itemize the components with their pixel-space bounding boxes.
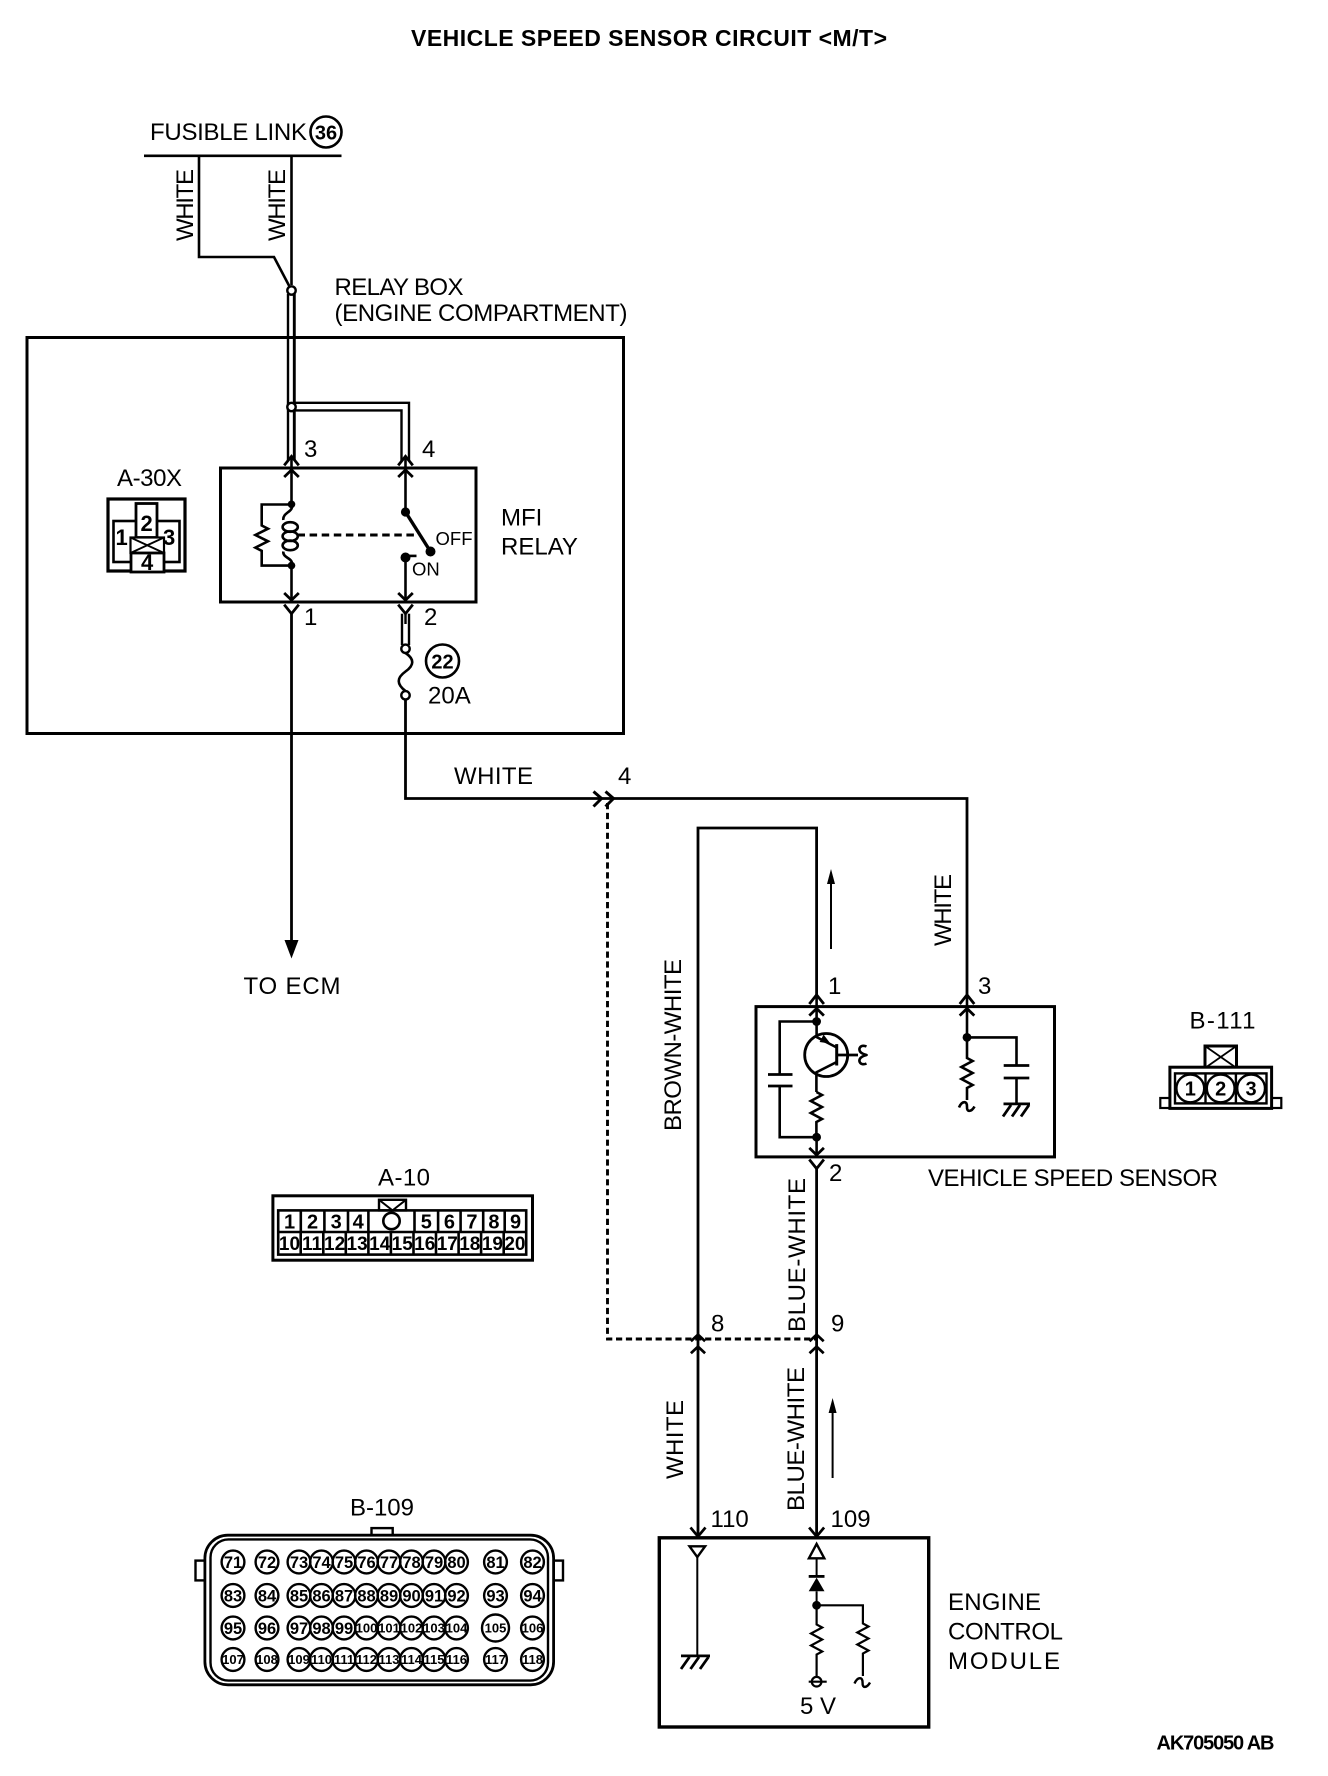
relay coil	[283, 501, 298, 570]
label WHITE (VSS pin 3 wire)	[930, 874, 957, 946]
junction 9 chevrons	[810, 1335, 824, 1354]
ECM output terminal triangle (pin 109)	[809, 1544, 824, 1577]
svg-text:102: 102	[401, 1621, 423, 1636]
label TO ECM	[244, 973, 341, 1000]
VSS pin 1 arrow	[809, 995, 824, 1021]
junction ring at fusible wires join	[287, 286, 295, 294]
label 9	[831, 1311, 844, 1338]
wire WHITE from junction 8 to ECM pin 110	[697, 1335, 700, 1536]
fusible link number 36	[311, 117, 342, 148]
svg-text:BROWN-WHITE: BROWN-WHITE	[660, 959, 687, 1131]
relay pin 4 arrow	[398, 456, 413, 512]
wire WHITE left from fusible link	[199, 156, 290, 287]
ECM pin 109 arrow	[809, 1528, 824, 1537]
svg-text:74: 74	[312, 1554, 331, 1572]
connector A-10 drawing	[273, 1196, 533, 1260]
svg-text:107: 107	[222, 1652, 244, 1667]
svg-text:4: 4	[618, 763, 631, 790]
svg-text:AK705050 AB: AK705050 AB	[1157, 1733, 1275, 1755]
relay switch	[401, 507, 436, 600]
svg-text:104: 104	[446, 1621, 468, 1636]
junction node (ECM)	[812, 1601, 821, 1610]
svg-text:93: 93	[486, 1588, 504, 1606]
pin number 109	[831, 1506, 871, 1533]
inline connector chevrons on WHITE wire	[594, 792, 614, 807]
engine control module outline	[659, 1538, 928, 1727]
ground (ECM internal)	[681, 1656, 710, 1669]
svg-text:4: 4	[141, 550, 154, 575]
svg-text:WHITE: WHITE	[930, 874, 957, 946]
resistor R3 (to 5V)	[811, 1605, 822, 1677]
title: VEHICLE SPEED SENSOR CIRCUIT <M/T>	[411, 25, 887, 51]
svg-text:B-111: B-111	[1190, 1008, 1256, 1035]
svg-text:112: 112	[356, 1652, 377, 1667]
svg-text:20A: 20A	[428, 683, 471, 710]
svg-text:86: 86	[312, 1588, 330, 1606]
svg-text:B-109: B-109	[350, 1495, 414, 1522]
label ENGINE CONTROL MODULE	[948, 1589, 1063, 1675]
svg-text:19: 19	[482, 1234, 503, 1255]
ECM pin 110 arrow	[691, 1528, 706, 1537]
svg-text:11: 11	[302, 1234, 323, 1255]
MFI relay outline	[221, 468, 477, 602]
svg-text:87: 87	[335, 1588, 353, 1606]
label VEHICLE SPEED SENSOR	[928, 1165, 1218, 1192]
svg-text:2: 2	[829, 1160, 842, 1187]
svg-text:OFF: OFF	[436, 528, 473, 549]
svg-text:1: 1	[1185, 1079, 1196, 1101]
svg-text:17: 17	[437, 1234, 458, 1255]
svg-text:79: 79	[425, 1554, 443, 1572]
svg-text:A-10: A-10	[378, 1165, 430, 1192]
svg-text:WHITE: WHITE	[172, 169, 199, 241]
svg-text:1: 1	[284, 1212, 295, 1234]
vehicle speed sensor outline	[756, 1007, 1055, 1157]
svg-text:2: 2	[1215, 1079, 1226, 1101]
svg-text:TO ECM: TO ECM	[244, 973, 341, 1000]
svg-text:2: 2	[141, 511, 153, 536]
ground (VSS internal)	[1003, 1104, 1030, 1117]
resistor R1 (below transistor)	[811, 1092, 822, 1142]
relay box label	[335, 274, 628, 327]
svg-text:97: 97	[290, 1620, 308, 1638]
pin number 3	[304, 436, 317, 463]
svg-text:116: 116	[446, 1652, 467, 1667]
svg-text:88: 88	[357, 1588, 375, 1606]
svg-text:WHITE: WHITE	[662, 1400, 689, 1479]
label WHITE (right fusible wire)	[264, 169, 291, 241]
svg-text:2: 2	[424, 604, 437, 631]
relay box (engine compartment) outline	[27, 338, 624, 734]
svg-text:36: 36	[315, 123, 337, 145]
svg-text:13: 13	[347, 1234, 368, 1255]
svg-text:109: 109	[831, 1506, 871, 1533]
svg-text:10: 10	[279, 1234, 300, 1255]
wire BLUE-WHITE from VSS pin 2 to ECM pin 109	[815, 1169, 818, 1536]
svg-text:108: 108	[256, 1652, 278, 1667]
label BLUE-WHITE (above junction 9)	[784, 1178, 811, 1332]
svg-text:78: 78	[402, 1554, 420, 1572]
svg-text:VEHICLE SPEED SENSOR: VEHICLE SPEED SENSOR	[928, 1165, 1218, 1192]
label WHITE (left fusible wire)	[172, 169, 199, 241]
capacitor C1 (VSS left)	[768, 1022, 817, 1138]
capacitor C2 (VSS right)	[967, 1037, 1029, 1104]
svg-text:113: 113	[379, 1652, 400, 1667]
connector B-109 drawing	[196, 1528, 564, 1685]
svg-text:118: 118	[522, 1652, 543, 1667]
resistor R2 (VSS pin 3 branch)	[959, 1033, 975, 1111]
svg-text:98: 98	[312, 1620, 330, 1638]
pin number 2 (VSS)	[829, 1160, 842, 1187]
svg-text:1: 1	[828, 973, 841, 1000]
thick wire (doubled) down into relay box	[288, 294, 294, 460]
svg-text:91: 91	[425, 1588, 443, 1606]
svg-text:115: 115	[424, 1652, 445, 1667]
transistor Q1 (hall element output)	[805, 1017, 848, 1092]
junction 8 chevrons	[691, 1335, 705, 1354]
pin number 3 (VSS)	[978, 973, 991, 1000]
svg-text:95: 95	[224, 1620, 242, 1638]
label 8	[711, 1311, 724, 1338]
svg-text:89: 89	[380, 1588, 398, 1606]
svg-text:14: 14	[369, 1234, 391, 1255]
svg-text:5: 5	[421, 1212, 432, 1234]
svg-text:106: 106	[522, 1621, 544, 1636]
ECM input terminal triangle (pin 110)	[690, 1546, 706, 1656]
thick wire (doubled) below relay pin 2	[402, 614, 409, 645]
svg-text:BLUE-WHITE: BLUE-WHITE	[783, 1367, 810, 1511]
svg-text:18: 18	[459, 1234, 480, 1255]
svg-text:76: 76	[357, 1554, 375, 1572]
svg-text:WHITE: WHITE	[454, 763, 533, 790]
diode D1	[809, 1576, 825, 1605]
svg-text:111: 111	[334, 1652, 354, 1667]
fuse rating 20A	[428, 683, 471, 710]
svg-text:8: 8	[488, 1212, 499, 1234]
transistor base lead with pickup coil continuation	[837, 1046, 867, 1064]
VSS pin 2 arrow	[809, 1137, 824, 1168]
svg-text:1: 1	[116, 525, 128, 550]
svg-text:WHITE: WHITE	[264, 169, 291, 241]
svg-text:73: 73	[290, 1554, 308, 1572]
wire pin 1 to ECM	[285, 614, 299, 959]
svg-text:85: 85	[290, 1588, 308, 1606]
svg-text:3: 3	[163, 525, 175, 550]
label 5 V	[800, 1693, 836, 1720]
wire WHITE from fuse to VSS pin 3	[406, 700, 968, 996]
svg-text:96: 96	[258, 1620, 276, 1638]
pin number 1 (VSS)	[828, 973, 841, 1000]
svg-text:8: 8	[711, 1311, 724, 1338]
svg-text:71: 71	[224, 1554, 242, 1572]
svg-text:103: 103	[423, 1621, 445, 1636]
svg-text:2: 2	[307, 1212, 318, 1234]
dashed harness wire from connector 4 to junctions 8 and 9	[608, 803, 817, 1339]
svg-text:9: 9	[510, 1212, 521, 1234]
svg-text:RELAY: RELAY	[501, 534, 578, 561]
drawing number AK705050 AB	[1157, 1733, 1275, 1755]
junction ring at relay branch	[287, 403, 295, 411]
svg-text:77: 77	[380, 1554, 398, 1572]
svg-text:105: 105	[485, 1621, 507, 1636]
svg-text:80: 80	[447, 1554, 465, 1572]
svg-text:75: 75	[335, 1554, 353, 1572]
svg-text:83: 83	[224, 1588, 242, 1606]
svg-text:117: 117	[485, 1652, 506, 1667]
svg-text:84: 84	[258, 1588, 277, 1606]
svg-text:92: 92	[447, 1588, 465, 1606]
svg-text:100: 100	[356, 1621, 378, 1636]
connector A-30X drawing	[108, 499, 185, 575]
svg-text:VEHICLE SPEED SENSOR CIRCUIT <: VEHICLE SPEED SENSOR CIRCUIT <M/T>	[411, 25, 887, 51]
svg-text:7: 7	[466, 1212, 477, 1234]
svg-text:CONTROL: CONTROL	[948, 1619, 1063, 1646]
label BROWN-WHITE	[660, 959, 687, 1131]
svg-text:114: 114	[401, 1652, 423, 1667]
label OFF	[436, 528, 473, 549]
pin number 4	[422, 436, 435, 463]
connector B-111 label	[1190, 1008, 1256, 1035]
resistor R4 (pull load)	[817, 1605, 870, 1687]
wire BROWN-WHITE from VSS pin 1 to ECM pin 110	[698, 828, 817, 1335]
svg-text:MFI: MFI	[501, 505, 542, 532]
label MFI RELAY	[501, 505, 578, 561]
relay coil parallel resistor	[255, 505, 291, 566]
signal direction arrow (ECM pin 109)	[829, 1398, 837, 1478]
signal direction arrow (VSS pin 1)	[827, 869, 835, 949]
svg-text:ENGINE: ENGINE	[948, 1589, 1041, 1616]
svg-text:3: 3	[978, 973, 991, 1000]
relay pin 2 arrow	[398, 593, 413, 614]
svg-text:110: 110	[311, 1652, 332, 1667]
svg-text:94: 94	[523, 1588, 542, 1606]
VSS pin 3 arrow	[960, 995, 975, 1038]
svg-text:16: 16	[414, 1234, 435, 1255]
svg-text:3: 3	[1246, 1079, 1257, 1101]
svg-text:81: 81	[486, 1554, 504, 1572]
connector B-109 label	[350, 1495, 414, 1522]
svg-text:4: 4	[353, 1212, 365, 1234]
fuse number 22 circled	[426, 645, 459, 678]
label 4 (inline connector)	[618, 763, 631, 790]
label BLUE-WHITE (below junction 9)	[783, 1367, 810, 1511]
svg-text:6: 6	[444, 1212, 455, 1234]
svg-text:3: 3	[331, 1212, 342, 1234]
connector B-111 drawing	[1160, 1046, 1281, 1108]
svg-text:FUSIBLE LINK: FUSIBLE LINK	[150, 119, 307, 146]
svg-text:90: 90	[402, 1588, 420, 1606]
svg-text:4: 4	[422, 436, 435, 463]
relay pin 1 arrow	[284, 566, 299, 614]
svg-text:BLUE-WHITE: BLUE-WHITE	[784, 1178, 811, 1332]
label WHITE (ECM pin 110 wire)	[662, 1400, 689, 1479]
svg-text:22: 22	[431, 652, 453, 674]
relay pin 3 arrow	[284, 456, 299, 504]
svg-text:5 V: 5 V	[800, 1693, 836, 1720]
svg-text:101: 101	[378, 1621, 400, 1636]
fusible link element 22	[399, 645, 413, 700]
fusible link bus line	[144, 155, 342, 158]
relay dashed actuation line	[298, 534, 415, 537]
svg-text:RELAY BOX: RELAY BOX	[335, 274, 464, 301]
svg-text:A-30X: A-30X	[117, 465, 182, 492]
svg-text:3: 3	[304, 436, 317, 463]
fusible link label	[150, 119, 307, 146]
label ON	[412, 559, 440, 580]
svg-text:ON: ON	[412, 559, 440, 580]
svg-text:82: 82	[523, 1554, 541, 1572]
svg-text:9: 9	[831, 1311, 844, 1338]
svg-text:1: 1	[304, 604, 317, 631]
svg-text:109: 109	[288, 1652, 310, 1667]
connector A-10 label	[378, 1165, 430, 1192]
svg-text:99: 99	[335, 1620, 353, 1638]
pin number 1	[304, 604, 317, 631]
pin number 2	[424, 604, 437, 631]
5V supply terminal	[809, 1677, 827, 1687]
pin number 110	[711, 1506, 749, 1533]
connector A-30X label	[117, 465, 182, 492]
svg-text:15: 15	[392, 1234, 414, 1255]
svg-text:(ENGINE COMPARTMENT): (ENGINE COMPARTMENT)	[335, 300, 628, 327]
wire WHITE right from fusible link	[290, 156, 293, 285]
thick wire branch (doubled) to relay pin 4	[295, 403, 409, 461]
svg-text:72: 72	[258, 1554, 276, 1572]
svg-text:110: 110	[711, 1506, 749, 1533]
svg-text:20: 20	[504, 1234, 525, 1255]
label WHITE (horizontal wire)	[454, 763, 533, 790]
svg-text:MODULE: MODULE	[948, 1648, 1060, 1675]
svg-text:12: 12	[324, 1234, 345, 1255]
